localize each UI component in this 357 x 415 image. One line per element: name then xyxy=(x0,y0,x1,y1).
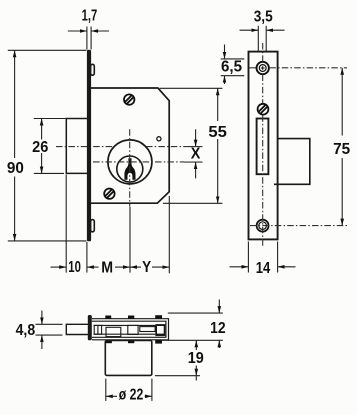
dim 26 bolt height xyxy=(32,119,65,174)
case top view inner xyxy=(92,321,166,337)
deadbolt top view xyxy=(66,324,88,334)
slot cutout xyxy=(257,119,269,175)
faceplate side view xyxy=(249,52,278,240)
cylinder plug circle xyxy=(117,156,143,182)
svg-text:3,5: 3,5 xyxy=(254,8,273,25)
dim 19 cylinder protrusion xyxy=(155,340,204,380)
dim 55 case height xyxy=(160,88,227,203)
slotted screw (side view) xyxy=(258,104,269,115)
faceplate top view xyxy=(88,315,92,340)
dim 12 case depth xyxy=(161,300,226,349)
dim diameter 22 xyxy=(106,379,152,404)
bottom screw centerline xyxy=(250,225,347,227)
side view vertical centerline xyxy=(262,43,264,247)
svg-text:26: 26 xyxy=(32,139,48,156)
screw hole bottom (side view) xyxy=(257,220,269,232)
svg-text:M: M xyxy=(101,260,113,277)
dim X bolt-to-cylinder xyxy=(191,129,201,178)
small hole xyxy=(157,137,161,141)
svg-text:Y: Y xyxy=(142,259,151,276)
svg-text:14: 14 xyxy=(256,260,271,277)
cylinder horizontal centerline xyxy=(93,161,184,163)
svg-text:6,5: 6,5 xyxy=(221,59,242,76)
svg-text:19: 19 xyxy=(188,350,204,367)
cylinder vertical centerline xyxy=(129,129,131,206)
deadbolt front view xyxy=(66,119,87,174)
faceplate front view xyxy=(87,50,91,242)
dim 6,5 screw hole xyxy=(221,45,245,85)
svg-text:1,7: 1,7 xyxy=(82,8,98,25)
svg-text:4,8: 4,8 xyxy=(16,322,36,339)
cylinder housing top view xyxy=(105,341,152,376)
dim 1,7 faceplate thickness xyxy=(68,8,109,50)
case side view xyxy=(274,139,310,185)
dim 3,5 slot width xyxy=(240,8,285,51)
dim 4,8 bolt thickness xyxy=(16,311,63,350)
screw top (case front) xyxy=(124,94,134,104)
svg-text:55: 55 xyxy=(208,124,227,141)
svg-text:10: 10 xyxy=(68,259,81,276)
svg-text:ø 22: ø 22 xyxy=(119,386,144,403)
bolt centerline xyxy=(56,146,203,148)
screw bottom (case front) xyxy=(104,189,114,199)
top screw centerline xyxy=(250,67,348,69)
staked tabs bottom xyxy=(106,340,162,344)
faceplate tab bottom xyxy=(91,220,95,232)
dim 75 screw spacing xyxy=(333,68,350,226)
screw hole top (side view) xyxy=(257,62,269,74)
svg-text:X: X xyxy=(191,146,201,163)
dim 14 faceplate width xyxy=(230,242,296,277)
bottom dimension line 10 M Y xyxy=(51,175,170,277)
keyway profile xyxy=(124,158,135,180)
case top view outer xyxy=(92,319,169,340)
cylinder outer circle xyxy=(108,140,152,184)
dim 90 overall height xyxy=(7,50,87,241)
faceplate tab top xyxy=(91,64,95,75)
svg-text:75: 75 xyxy=(333,141,350,158)
lock case front view xyxy=(91,88,169,203)
staked tabs top xyxy=(105,315,162,319)
svg-text:12: 12 xyxy=(210,320,226,337)
svg-text:90: 90 xyxy=(7,160,24,177)
mechanism internals top view xyxy=(94,325,166,337)
